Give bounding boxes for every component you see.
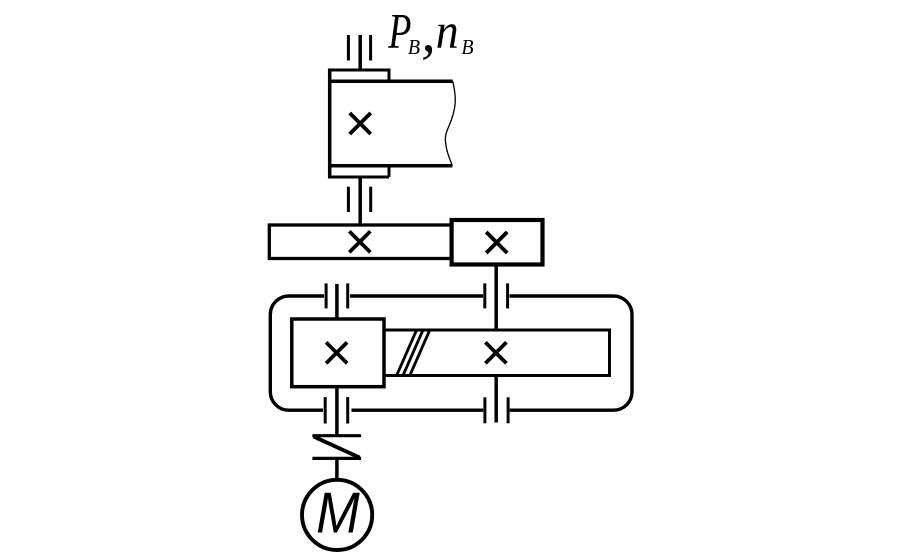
svg-text:B: B (461, 35, 473, 59)
svg-text:B: B (408, 35, 420, 59)
svg-text:,: , (421, 0, 436, 64)
svg-text:M: M (316, 481, 360, 545)
svg-text:n: n (436, 4, 459, 59)
